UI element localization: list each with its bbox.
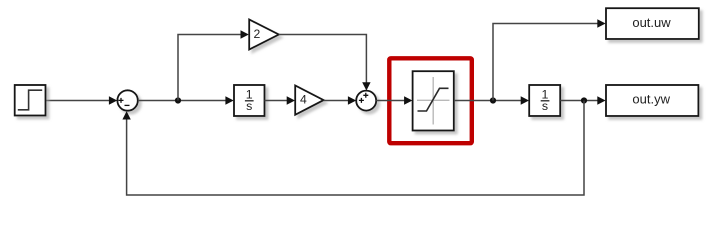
wire: saturation to integrator2 with branch node: [454, 100, 523, 102]
integrator block I2 (1/s): [529, 85, 560, 116]
wire: branch up to out.uw: [493, 24, 599, 101]
wire: sum1 to integrator1 with branch node: [138, 100, 227, 102]
wire: branch up to gain2: [178, 35, 242, 101]
highlight box (red) around saturation block: [389, 58, 472, 143]
wire: feedback from node to sum1 bottom: [127, 101, 584, 196]
svg-text:s: s: [542, 99, 548, 113]
outport block out.uw: [606, 8, 699, 39]
svg-text:out.uw: out.uw: [632, 15, 671, 30]
svg-text:2: 2: [254, 27, 261, 41]
saturation curve: [418, 88, 449, 111]
sum junction S2: [356, 91, 376, 111]
plus sign (left input): [359, 98, 364, 103]
svg-text:s: s: [246, 99, 252, 113]
svg-text:out.yw: out.yw: [632, 92, 670, 107]
saturation block: [413, 71, 454, 130]
wire: sum2 to saturation: [376, 100, 406, 102]
gain block G2 (triangle "2"): [249, 20, 279, 50]
wire: gain4 to sum2: [324, 100, 350, 102]
branch node dot: [490, 97, 496, 103]
wire: gain2 to sum2 (over the top): [279, 35, 367, 85]
integrator block I1 (1/s): [234, 85, 265, 116]
plus sign (left input): [119, 98, 124, 103]
step source block: [15, 85, 46, 116]
sum junction S1: [117, 90, 137, 110]
gain block G4 (triangle "4"): [295, 86, 323, 115]
branch node dot: [581, 97, 587, 103]
wire: integrator1 to gain4: [265, 100, 289, 102]
branch node dot: [175, 97, 181, 103]
svg-text:4: 4: [300, 93, 307, 107]
axes (light gray cross): [432, 77, 434, 125]
wire: step output to sum1: [46, 100, 111, 102]
plus sign (top input): [363, 93, 368, 98]
outport block out.yw: [606, 85, 698, 116]
wire: integrator2 to out.yw with branch node: [560, 100, 599, 102]
minus sign (bottom input): [125, 104, 130, 106]
